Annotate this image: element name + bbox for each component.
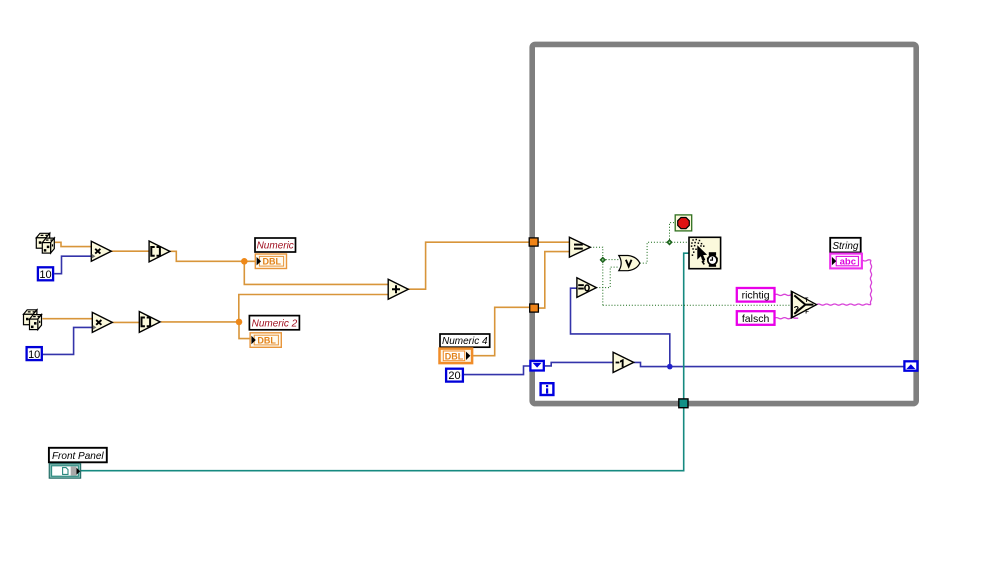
boolean junction diamond 1 <box>600 257 606 263</box>
wait for front panel activity node <box>689 237 721 268</box>
wire junction1 branch to add node top input <box>244 261 388 284</box>
label Numeric 2 <box>249 316 299 330</box>
orange tunnel upper <box>529 238 538 246</box>
or gate <box>619 256 640 271</box>
add node <box>388 279 408 299</box>
iteration terminal i <box>541 383 554 395</box>
svg-text:F: F <box>805 309 809 315</box>
teal tunnel bottom <box>679 399 688 408</box>
label Numeric 4 <box>440 334 490 347</box>
svg-text:10: 10 <box>28 349 40 361</box>
svg-text:Numeric: Numeric <box>257 241 294 252</box>
string wire falsch to select f input <box>775 318 799 319</box>
boolean wire junction up to stop terminal <box>670 223 676 243</box>
right shift register <box>904 361 917 370</box>
svg-text:DBL: DBL <box>257 336 276 346</box>
wire 20 constant to left shift register <box>464 366 530 375</box>
wire 10 constant to x1 <box>54 256 91 274</box>
junction dot numeric2 <box>236 319 243 326</box>
left shift register <box>530 361 543 371</box>
select node <box>791 291 816 318</box>
stop terminal <box>675 215 692 231</box>
wire bottom tunnel up to wait-activity node <box>684 253 689 399</box>
label String <box>830 238 861 253</box>
while loop border <box>532 44 916 403</box>
wire 10 constant2 to x2 <box>43 327 93 354</box>
svg-text:Front Panel: Front Panel <box>52 451 104 462</box>
wire left shift register to decrement <box>545 362 613 366</box>
string wire vertical segment <box>870 260 871 304</box>
wire Front Panel refnum to bottom tunnel <box>81 408 684 471</box>
wire dice2 to multiply x2 <box>42 318 92 320</box>
svg-text:String: String <box>832 241 859 252</box>
boolean wire equal output down <box>590 247 603 305</box>
junction dot numeric1 <box>241 258 248 265</box>
multiply node x2 <box>92 312 112 332</box>
wire upper tunnel to equal node top input <box>538 241 569 243</box>
equal node <box>569 237 590 257</box>
wire lower tunnel to equal node bottom input <box>538 252 569 309</box>
dice random constant 2 <box>24 310 42 330</box>
orange tunnel lower <box>530 304 539 312</box>
abc string terminal <box>830 254 862 269</box>
svg-text:Numeric 4: Numeric 4 <box>442 336 488 347</box>
boolean wire or gate output to wait-activity node <box>640 242 689 263</box>
wire add output to upper loop tunnel <box>408 242 529 289</box>
wire junction2 down to DBL2 terminal <box>239 322 250 339</box>
boolean wire to select s input <box>603 304 792 306</box>
DBL terminal Numeric 2 <box>250 333 281 348</box>
svg-text:Numeric 2: Numeric 2 <box>252 318 298 329</box>
numeric constant 10 (row 2) <box>27 347 42 361</box>
wire round1 to Numeric terminal <box>170 251 255 261</box>
svg-text:falsch: falsch <box>742 313 770 325</box>
decrement node <box>613 352 634 372</box>
wire Numeric 4 control to lower loop tunnel <box>472 307 530 355</box>
string constant falsch <box>737 311 775 325</box>
multiply node x1 <box>91 241 111 261</box>
svg-text:20: 20 <box>448 370 460 382</box>
wire feedback junction up to equal-zero input <box>571 288 670 366</box>
numeric constant 20 <box>446 369 463 383</box>
boolean wire junction to or gate top input <box>603 259 619 261</box>
wire x2 output to round2 <box>112 321 139 323</box>
boolean junction diamond 2 <box>667 240 673 246</box>
string constant richtig <box>737 288 775 302</box>
wire round2 to Numeric 2 junction <box>161 321 239 323</box>
label Numeric <box>255 238 296 252</box>
DBL terminal Numeric <box>255 254 286 269</box>
junction dot decrement output <box>667 364 673 370</box>
numeric constant 10 (row 1) <box>38 267 53 281</box>
wire decrement output to right shift register <box>634 362 904 366</box>
boolean wire equal-zero output to or gate bottom input <box>596 267 618 288</box>
front panel refnum terminal <box>49 464 80 479</box>
svg-text:T: T <box>805 298 809 304</box>
svg-text:10: 10 <box>39 269 51 281</box>
round-to-nearest node 2 <box>139 312 160 333</box>
wire dice1 to multiply x1 <box>55 242 92 246</box>
svg-text:DBL: DBL <box>263 257 282 267</box>
DBL control Numeric 4 <box>440 349 473 364</box>
svg-text:DBL: DBL <box>445 352 464 362</box>
label Front Panel <box>49 448 107 463</box>
string wire select output to String indicator <box>817 304 871 305</box>
wire junction2 up to add node bottom input <box>239 295 388 322</box>
round-to-nearest node 1 <box>149 241 170 262</box>
wire x1 output to round1 <box>111 250 149 252</box>
equal-to-zero node <box>577 278 597 298</box>
dice random constant 1 <box>36 233 54 253</box>
svg-text:abc: abc <box>840 257 856 268</box>
svg-text:richtig: richtig <box>742 290 770 302</box>
string wire into abc terminal <box>862 260 871 261</box>
svg-text:?: ? <box>794 304 800 314</box>
string wire richtig to select t input <box>775 294 792 295</box>
